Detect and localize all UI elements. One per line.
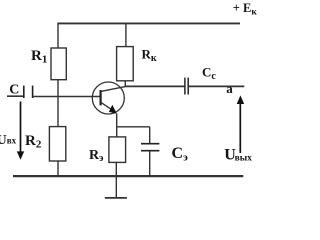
capacitor Cc bbox=[184, 78, 186, 95]
wire: R1 bottom to R2 top (through base node) bbox=[57, 80, 59, 127]
transistor VT1 emitter lead with arrow bbox=[101, 102, 114, 111]
wire: Cc right plate to output node a bbox=[189, 85, 245, 87]
wire: branch down to Ce top plate bbox=[149, 127, 151, 144]
wire: C to transistor base bbox=[33, 96, 100, 98]
wire: collector node to Cc left plate bbox=[125, 85, 185, 87]
arrow Uin bbox=[20, 102, 22, 154]
wire: emitter branch to Ce bbox=[117, 126, 150, 128]
transistor VT1 base bar bbox=[99, 90, 101, 105]
wire: input from left edge to C plate bbox=[7, 95, 23, 97]
resistor Rk bbox=[117, 47, 134, 81]
ground bbox=[105, 197, 127, 199]
svg-text:вх: вх bbox=[7, 136, 17, 146]
resistor Re bbox=[109, 137, 126, 163]
wire: top rail down to R1 bbox=[57, 23, 59, 49]
wire: +Ek top supply rail bbox=[58, 22, 241, 24]
capacitor C bbox=[23, 86, 25, 98]
svg-text:вых: вых bbox=[235, 153, 253, 163]
svg-text:а: а bbox=[226, 81, 233, 96]
arrow Uout bbox=[239, 101, 241, 153]
svg-text:C: C bbox=[9, 83, 19, 98]
wire: ground bus bbox=[13, 175, 243, 177]
wire: Ce bottom plate to bus bbox=[149, 151, 151, 176]
resistor R2 bbox=[49, 127, 65, 161]
wire: Rk bottom to collector node bbox=[124, 81, 126, 87]
transistor VT1 circle bbox=[92, 82, 124, 114]
wire: top rail down to Rk bbox=[125, 23, 127, 48]
wire: Re bottom through bus to ground bbox=[115, 162, 117, 197]
svg-text:U: U bbox=[0, 133, 7, 148]
capacitor Ce bbox=[141, 143, 159, 145]
wire: R2 bottom to ground bus bbox=[57, 161, 59, 177]
transistor VT1 collector lead bbox=[101, 87, 126, 92]
resistor R1 bbox=[51, 48, 66, 80]
wire: emitter down to Re bbox=[116, 114, 118, 138]
